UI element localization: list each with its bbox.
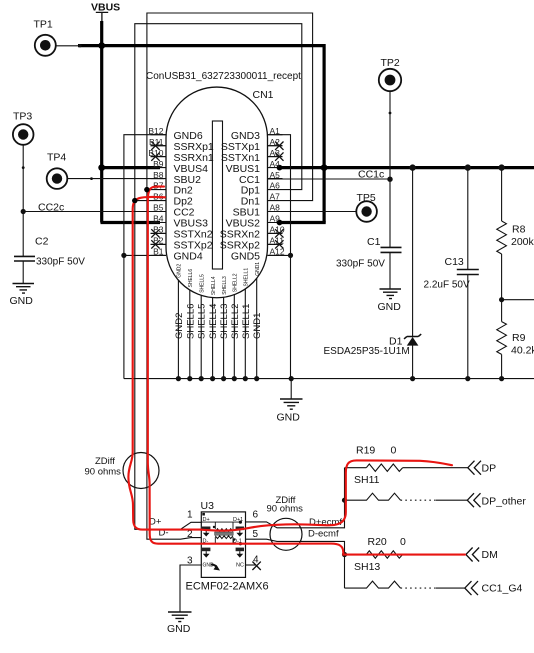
svg-text:ECMF02-2AMX6: ECMF02-2AMX6: [186, 581, 269, 593]
svg-text:A7: A7: [270, 192, 281, 202]
junction SH11 tap: [342, 498, 347, 503]
pin 1 D+: [187, 510, 210, 524]
wire ground rail: [124, 378, 534, 380]
testpoint TP1: [34, 19, 82, 56]
svg-text:R19: R19: [356, 445, 375, 457]
svg-text:CN1: CN1: [253, 89, 274, 101]
svg-text:R8: R8: [512, 224, 526, 236]
pin B11 SSRXp1: [149, 137, 214, 153]
svg-text:SHELL3: SHELL3: [219, 304, 230, 339]
svg-text:DM: DM: [482, 549, 498, 561]
pin A12 GND5: [231, 247, 285, 263]
port DP_other: [467, 493, 526, 507]
connector CN1 body: [146, 71, 301, 298]
svg-text:SHELL2: SHELL2: [230, 304, 241, 339]
pin A10 SSRXn2: [220, 225, 285, 241]
svg-text:B3: B3: [153, 225, 164, 235]
ground rail symbol: [277, 379, 303, 424]
pin A3 SSTXn1: [221, 148, 284, 164]
junction VBUS right cross: [321, 164, 328, 171]
junction GND5: [288, 253, 293, 258]
wire pin stubs: [151, 135, 283, 256]
capacitor C2: [14, 236, 85, 284]
svg-text:NC: NC: [236, 563, 244, 569]
junction D1 top: [409, 164, 415, 170]
wire Dp loop top (A6 to B6): [135, 24, 302, 201]
wire D-ecmf: [246, 528, 345, 588]
junction VBUS/B9: [98, 164, 105, 171]
pin shell GND1: [252, 262, 263, 382]
junction C13 top: [465, 164, 471, 170]
junction rail GND5: [289, 376, 294, 381]
pin shell GND2: [174, 264, 185, 382]
wire CC2 (B5): [23, 211, 166, 213]
pin B12 GND6: [148, 126, 202, 142]
ZDiff circle right: [267, 495, 304, 550]
svg-text:A4: A4: [270, 159, 281, 169]
pin B2 SSTXp2: [151, 236, 213, 252]
svg-text:SH11: SH11: [354, 474, 380, 486]
svg-text:A5: A5: [270, 170, 281, 180]
pin A5 CC1: [239, 170, 280, 186]
junction C13 bottom: [465, 376, 470, 381]
svg-text:SH13: SH13: [354, 561, 380, 573]
svg-text:U3: U3: [201, 500, 215, 512]
capacitor C13: [424, 168, 479, 379]
svg-text:5: 5: [253, 529, 259, 540]
pin 6 D+1: [233, 510, 259, 524]
wire VBUS1 (A4): [279, 166, 534, 169]
svg-text:SHELL1: SHELL1: [244, 268, 250, 287]
wire VBUS4 (B9): [101, 166, 161, 169]
pin A7 Dn1: [241, 192, 280, 208]
svg-text:B8: B8: [153, 170, 164, 180]
node CC2c: [21, 202, 65, 215]
pin A6 Dp1: [241, 181, 280, 197]
red highlight Dp net: [128, 197, 452, 531]
svg-text:0: 0: [391, 445, 397, 457]
junction D1 bottom: [410, 376, 415, 381]
wire CC1 (A5): [268, 178, 391, 180]
pin 3 GND: [180, 556, 214, 612]
wire GND4 (B1): [124, 254, 166, 256]
svg-text:B11: B11: [149, 137, 164, 147]
junction R9 bottom: [499, 376, 504, 381]
spark gap SH13: [345, 561, 465, 588]
svg-text:SHELL6: SHELL6: [188, 269, 194, 288]
pin B9 VBUS4: [153, 159, 208, 175]
svg-text:SHELL4: SHELL4: [211, 276, 217, 295]
svg-text:1: 1: [187, 510, 193, 521]
ground C1: [378, 289, 402, 313]
svg-text:SHELL4: SHELL4: [208, 304, 219, 339]
port CC1_G4: [465, 581, 523, 595]
svg-text:C2: C2: [35, 236, 49, 248]
pin B8 SBU2: [153, 170, 201, 186]
pin B3 SSTXn2: [151, 225, 213, 241]
wire VBUS vertical bus: [100, 21, 103, 223]
pin 5 D-1: [233, 529, 259, 545]
svg-text:A2: A2: [270, 137, 281, 147]
junction A4 stub: [277, 165, 283, 171]
junction R8 top: [498, 164, 504, 170]
svg-text:ZDiff: ZDiff: [95, 456, 115, 467]
svg-text:TP4: TP4: [47, 152, 66, 164]
resistor R9: [497, 300, 534, 379]
junction A9 stub: [277, 220, 283, 226]
svg-text:GND: GND: [378, 301, 402, 313]
junction Dn2 over red: [144, 187, 149, 192]
testpoint TP2: [379, 57, 401, 179]
svg-text:ESDA25P35-1U1M: ESDA25P35-1U1M: [324, 346, 410, 357]
op-amp U3 ECMF02-2AMX6: [186, 500, 269, 593]
svg-text:A6: A6: [270, 181, 281, 191]
pin B1 GND4: [153, 247, 203, 263]
diode D1 ESDA25P35-1U1M: [324, 168, 422, 379]
svg-text:GND5: GND5: [231, 251, 260, 263]
svg-text:B10: B10: [148, 148, 163, 158]
svg-text:D+ecmf: D+ecmf: [309, 517, 342, 528]
port DM: [466, 548, 498, 562]
wire GND6-GND4 left vertical: [124, 135, 166, 379]
svg-text:C1: C1: [367, 236, 381, 248]
wire Dn loop top (A7 to B7): [147, 13, 313, 201]
resistor R19: [345, 445, 468, 472]
svg-text:GND4: GND4: [174, 251, 203, 263]
svg-text:B4: B4: [153, 214, 164, 224]
svg-text:90 ohms: 90 ohms: [267, 504, 304, 515]
resistor R8: [497, 168, 534, 300]
svg-text:SHELL5: SHELL5: [199, 274, 205, 293]
pin B6 Dp2: [153, 192, 193, 208]
svg-text:200k: 200k: [511, 236, 534, 248]
svg-text:330pF 50V: 330pF 50V: [36, 257, 85, 268]
svg-text:TP5: TP5: [357, 192, 376, 204]
pin A11 SSRXp2: [220, 236, 285, 252]
pin shell SHELL5: [197, 274, 208, 381]
pin shell SHELL6: [185, 269, 196, 382]
pin shell SHELL2: [230, 273, 241, 381]
pin A2 SSTXp1: [221, 137, 284, 153]
pin A9 VBUS2: [226, 214, 281, 230]
wire D+ecmf: [246, 468, 345, 529]
pin B5 CC2: [153, 203, 195, 219]
svg-text:DP: DP: [482, 463, 497, 475]
pin B10 SSRXn1: [148, 148, 214, 164]
ground C2: [10, 284, 35, 308]
wire R8/R9 node to edge: [499, 297, 534, 302]
power port VBUS: [91, 2, 120, 22]
svg-text:2.2uF 50V: 2.2uF 50V: [424, 280, 470, 291]
svg-text:A10: A10: [270, 225, 285, 235]
pin A1 GND3: [231, 126, 280, 142]
wire GND3-GND5 right vertical: [268, 135, 291, 379]
svg-text:B2: B2: [153, 236, 164, 246]
svg-text:TP2: TP2: [381, 57, 400, 69]
pin shell SHELL4: [208, 276, 219, 381]
svg-text:SHELL3: SHELL3: [222, 276, 228, 295]
capacitor C1: [336, 179, 402, 288]
svg-text:CC2c: CC2c: [38, 202, 64, 214]
wire GND5 (A12): [268, 254, 291, 256]
pin B7 Dn2: [153, 181, 193, 197]
pin 4 NC: [236, 555, 261, 571]
testpoint TP3: [13, 111, 34, 257]
pin A4 VBUS1: [226, 159, 281, 175]
svg-text:330pF 50V: 330pF 50V: [336, 259, 385, 270]
svg-text:SHELL6: SHELL6: [185, 304, 196, 339]
svg-text:C13: C13: [445, 256, 464, 268]
wire VBUS top horizontal: [78, 44, 324, 47]
testpoint TP4: [47, 152, 164, 189]
svg-text:6: 6: [253, 510, 259, 521]
svg-text:ConUSB31_632723300011_recept: ConUSB31_632723300011_recept: [146, 71, 301, 82]
svg-text:R20: R20: [368, 536, 387, 548]
port DP: [468, 461, 496, 475]
svg-text:40.2k: 40.2k: [511, 345, 534, 357]
resistor R20: [345, 536, 466, 558]
wire VBUS2 (A9): [279, 221, 326, 224]
svg-text:A11: A11: [270, 236, 285, 246]
wire Dp2 to U3: [135, 201, 202, 530]
svg-text:A3: A3: [270, 148, 281, 158]
svg-text:D-ecmf: D-ecmf: [308, 528, 339, 539]
svg-text:GND: GND: [167, 623, 191, 635]
node CC1c: [358, 169, 393, 182]
svg-text:DP_other: DP_other: [482, 496, 527, 508]
svg-text:0: 0: [400, 536, 406, 548]
junction R20 tap: [342, 552, 347, 557]
U3 internal wires and ESD diodes: [201, 521, 244, 571]
ground U3: [167, 612, 192, 635]
svg-text:D+: D+: [149, 517, 162, 528]
svg-text:CC1c: CC1c: [358, 169, 384, 181]
svg-text:SHELL5: SHELL5: [197, 304, 208, 339]
pin A8 SBU1: [233, 203, 281, 219]
wire VBUS3 (B4): [101, 221, 161, 224]
svg-text:CC1_G4: CC1_G4: [482, 583, 523, 595]
svg-text:90 ohms: 90 ohms: [85, 467, 122, 478]
svg-text:TP3: TP3: [13, 111, 32, 123]
svg-text:A8: A8: [270, 203, 281, 213]
svg-text:GND1: GND1: [255, 262, 261, 276]
wire SBU1 (A8) to TP5: [279, 211, 356, 213]
red highlight Dn net: [148, 186, 465, 554]
wire VBUS right vertical: [323, 44, 326, 223]
svg-text:GND1: GND1: [252, 313, 263, 339]
svg-text:R9: R9: [512, 332, 526, 344]
svg-text:GND2: GND2: [177, 264, 183, 278]
svg-text:SHELL2: SHELL2: [233, 273, 239, 292]
junction Dn2: [144, 187, 149, 192]
svg-text:VBUS: VBUS: [91, 2, 120, 14]
junction Dp2 over red: [132, 198, 137, 203]
svg-text:A9: A9: [270, 214, 281, 224]
svg-text:GND2: GND2: [174, 313, 185, 339]
ZDiff circle left: [85, 453, 160, 489]
testpoint TP5: [356, 192, 377, 222]
pin B4 VBUS3: [153, 214, 208, 230]
svg-text:SHELL1: SHELL1: [241, 304, 252, 339]
junction GND4: [121, 253, 126, 258]
svg-text:GND: GND: [277, 412, 301, 424]
pin shell SHELL3: [219, 276, 230, 381]
junction VBUS/TP1: [98, 42, 105, 49]
junction Dp2: [132, 198, 137, 203]
spark gap SH11: [345, 474, 468, 500]
svg-text:GND: GND: [10, 295, 34, 307]
svg-text:B9: B9: [153, 159, 164, 169]
pin 2 D-: [187, 529, 208, 545]
wire Dn2 to U3: [147, 190, 201, 540]
pin shell SHELL1: [241, 268, 252, 382]
svg-text:TP1: TP1: [34, 19, 53, 31]
